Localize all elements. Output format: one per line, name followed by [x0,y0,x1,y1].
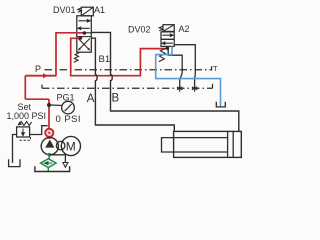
component relief valve pilot dashes [20,137,31,140]
node gauge tap junction dot [47,103,51,107]
component electric motor circle [61,136,80,155]
wire T gallery left end tick [41,85,43,89]
valve DV02 top position arrow right [162,34,173,36]
valve DV01 bottom position crossed arrows [78,39,90,51]
component red check valve circle [45,129,53,137]
node junction dot DV01 lower port [79,36,82,39]
wire red horizontal to gauge column [25,98,49,100]
component pump triangle [45,140,54,148]
valve DV02 solenoid diagonal [163,25,174,32]
valve DV01 divider upper [77,32,92,34]
valve DV01 solenoid box [81,7,93,16]
wire T gallery right end tick [212,84,214,88]
wire red DV01 lower port jumper to DV02 P [71,38,167,75]
component cylinder rod [162,138,228,152]
valve DV01 top position arrow right [78,20,90,22]
svg-text:A2: A2 [179,24,190,34]
svg-text:DV02: DV02 [128,25,151,35]
wire DV02 A2 line to plugged port [174,45,195,88]
wire P gallery right end tick [211,66,213,70]
wire pump suction [48,155,50,159]
valve DV01 return spring [74,53,79,63]
svg-text:A: A [87,93,95,105]
component pump circle [41,138,58,155]
valve DV01 divider lower [77,36,92,38]
component relief valve arrowhead on spring [18,122,23,126]
component suction filter diamond [41,159,56,168]
svg-text:PG1: PG1 [57,93,75,103]
wire gauge connection line [51,104,62,107]
svg-text:A1: A1 [94,5,105,15]
valve DV01 top position arrow left [78,27,90,29]
svg-text:T: T [213,64,218,73]
wire B1 work line [91,32,239,131]
ground tank symbol at blue return [216,102,225,107]
svg-text:P: P [35,64,41,74]
wire red circle to pump [48,137,50,139]
node junction dot DV02 P port [166,47,169,50]
valve DV01 body [77,16,92,52]
component relief valve body [17,127,30,137]
wire T gallery dash-dot line [42,87,213,89]
node plugged port asterisk left [177,86,182,92]
component filter internal arrow [45,162,53,165]
ground tank symbol at relief drain [9,159,20,166]
component gauge PG1 [62,101,75,114]
component cylinder piston [228,131,234,157]
node red flow arrowhead [43,73,48,78]
wire A1 work line [91,38,174,131]
ground main tank symbol [35,166,70,171]
wire red vertical left [24,76,26,100]
component cylinder barrel [174,131,242,157]
node plugged port asterisk right [192,86,197,92]
component relief valve spring [18,122,31,126]
wire P gallery dash-dot line [45,69,212,71]
valve DV02 bottom position arrow left [162,42,173,44]
wire red pump pressure staircase to DV01 P port [56,33,84,76]
valve DV02 divider [161,38,174,40]
valve DV02 return spring [159,48,166,62]
svg-text:B1: B1 [99,54,111,65]
valve DV02 solenoid zigzag [159,26,163,31]
wire red supply horizontal with flow arrow [25,75,56,77]
component gauge PG1 needle [65,104,72,111]
wire relief valve drain to tank [13,135,17,164]
svg-text:0 PSI: 0 PSI [56,114,82,125]
wire filter to tank [47,168,49,172]
valve DV01 solenoid zigzag [78,8,82,12]
svg-text:M: M [66,139,76,153]
component coupling circle [56,141,65,150]
valve DV02 solenoid box [163,25,174,32]
svg-text:DV01: DV01 [53,5,76,15]
component relief valve internal arrow [22,129,25,136]
svg-text:1,000 PSI: 1,000 PSI [7,111,47,121]
wire case drain return with arrow [49,155,65,163]
valve DV01 solenoid diagonal [81,7,93,16]
wire relief valve inlet tap [30,126,48,135]
node drain arrowhead [63,163,68,168]
wire DV02 B2 line to plugged port [168,46,182,88]
wire blue DV02 T return line [156,46,221,106]
svg-text:B: B [112,93,120,105]
valve DV02 body [161,32,174,47]
wire red vertical pump discharge [48,99,50,129]
node junction dot DV01 P port [83,31,87,35]
node suction junction dot [48,153,52,157]
